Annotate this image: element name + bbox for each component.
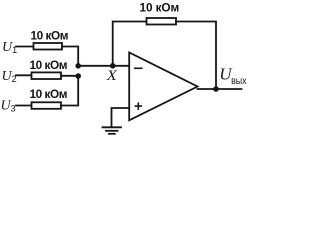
wire non-inverting input to ground [112,108,130,127]
resistor R4 feedback [147,18,177,25]
svg-text:10 кОм: 10 кОм [140,0,180,14]
op-amp inverting input minus sign [134,67,143,69]
node output junction [213,86,219,92]
resistor R2 [32,72,62,79]
op-amp U1 triangle [129,53,197,121]
node X junction [110,63,116,69]
wire U2 lead [16,74,31,76]
wire R3 up to bus [61,76,78,106]
wire R2 to vertical bus [61,75,78,77]
resistor R3 [32,102,62,109]
ground symbol [103,126,122,128]
wire summing bus to op-amp [78,65,129,67]
svg-text:10 кОм: 10 кОм [30,58,68,72]
svg-text:10 кОм: 10 кОм [30,87,68,101]
wire R1 to bus [62,47,78,66]
resistor R1 [34,43,63,50]
svg-text:X: X [106,68,118,84]
wire output [198,88,242,90]
op-amp non-inverting input plus sign [135,102,143,110]
node junction R1/bus [75,63,81,69]
wire feedback right leg [176,22,216,90]
svg-text:10 кОм: 10 кОм [31,29,69,43]
wire U1 lead [16,46,33,48]
node junction R2/bus [75,73,81,79]
wire feedback left leg [113,22,147,66]
wire U3 lead [16,105,31,107]
